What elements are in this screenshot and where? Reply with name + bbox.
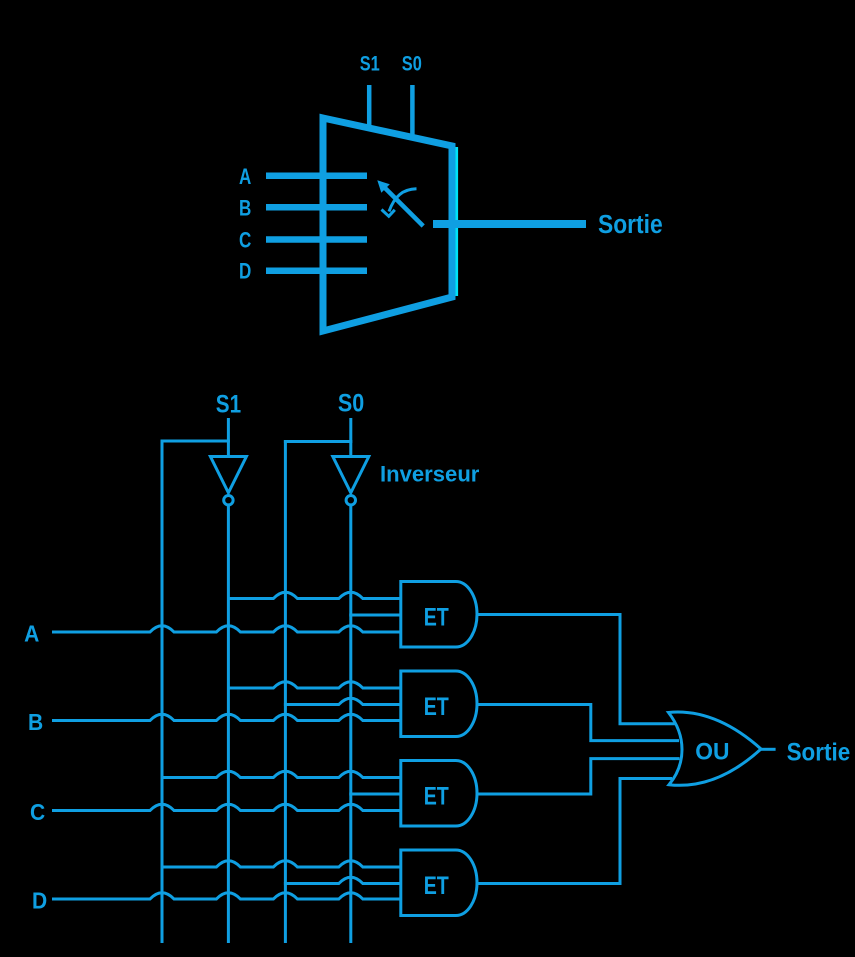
svg-text:S1: S1 [360,52,380,75]
svg-text:ET: ET [424,783,449,811]
wire: S1 stub into mux top [367,85,372,130]
svg-text:S0: S0 [402,52,422,75]
svg-text:S0: S0 [338,389,364,417]
svg-text:ET: ET [424,693,449,721]
wire: S1 branch to uninverted rail [161,440,230,443]
inverter U2 bubble [346,496,355,505]
wire: S1 down to inverter U1 [227,418,230,458]
AND gate G3 (ET) [401,761,477,827]
AND gate G4 (ET) [401,850,477,916]
wire: S1 to gate G4 (hops S1',S0,S0') [161,861,403,867]
svg-text:Sortie: Sortie [598,211,663,239]
svg-text:B: B [239,195,251,220]
svg-text:OU: OU [695,738,729,765]
cyan highlight along mux right edge [455,147,458,296]
wire: input B rail with hops [52,714,402,720]
wire: mux input B [266,204,367,211]
wire: mux input C [266,236,367,243]
multiplexer MUX body (trapezoid) [323,118,452,331]
wire: S0' to gate G3 [349,793,402,796]
wire: input D rail with hops [52,893,402,899]
wire: mux input D [266,267,367,274]
wire: G4 output to OR input 4 [477,779,672,884]
switch rotation arc [389,189,417,212]
inverter U1 bubble [224,496,233,505]
net S1' inverted vertical rail [227,505,230,943]
wire: S1' to gate G2 (hops S0,S0') [227,682,402,688]
svg-text:Sortie: Sortie [787,738,851,766]
net S1 uninverted vertical rail [161,440,164,944]
svg-text:C: C [30,799,45,825]
svg-text:S1: S1 [216,390,241,418]
svg-text:C: C [239,228,251,253]
wire: OR output [761,748,776,751]
svg-text:D: D [32,888,47,914]
inverter U1 triangle [210,457,246,493]
wire: G3 output to OR input 3 [477,759,680,794]
inverter U2 triangle [333,457,369,493]
wire: S0 to gate G2 (hops S0') [284,698,402,704]
svg-text:ET: ET [424,872,449,900]
wire: S0 branch to uninverted rail [284,440,352,443]
wire: S0 stub into mux top [410,85,415,139]
AND gate G2 (ET) [401,671,477,737]
switch arrow lever inside mux [385,188,423,226]
wire: input C rail with hops [52,804,402,810]
svg-text:A: A [239,164,251,189]
wire: S1 to gate G3 (hops S1',S0,S0') [161,771,403,777]
wire: S0 to gate G4 (hops S0') [284,877,402,883]
wire: mux input A [266,172,367,179]
wire: S0' to gate G1 [349,614,402,617]
svg-text:ET: ET [424,604,449,632]
svg-text:Inverseur: Inverseur [380,462,480,487]
net S0' inverted vertical rail [349,505,352,943]
wire: G1 output to OR input 1 [477,615,676,724]
wire: G2 output to OR input 2 [477,705,679,741]
wire: mux output Sortie [433,220,586,228]
switch rotation arc arrowhead [382,210,395,217]
svg-text:D: D [239,259,251,284]
net S0 uninverted vertical rail [284,440,287,943]
OR gate (OU) [669,712,762,785]
AND gate G1 (ET) [401,582,477,648]
wire: S1' to gate G1 (hops S0,S0') [227,592,402,598]
svg-text:A: A [24,621,39,647]
switch arrow head [377,180,390,193]
wire: S0 down to inverter U2 [349,418,352,458]
svg-text:B: B [28,709,43,735]
wire: input A rail with hops [52,626,402,632]
